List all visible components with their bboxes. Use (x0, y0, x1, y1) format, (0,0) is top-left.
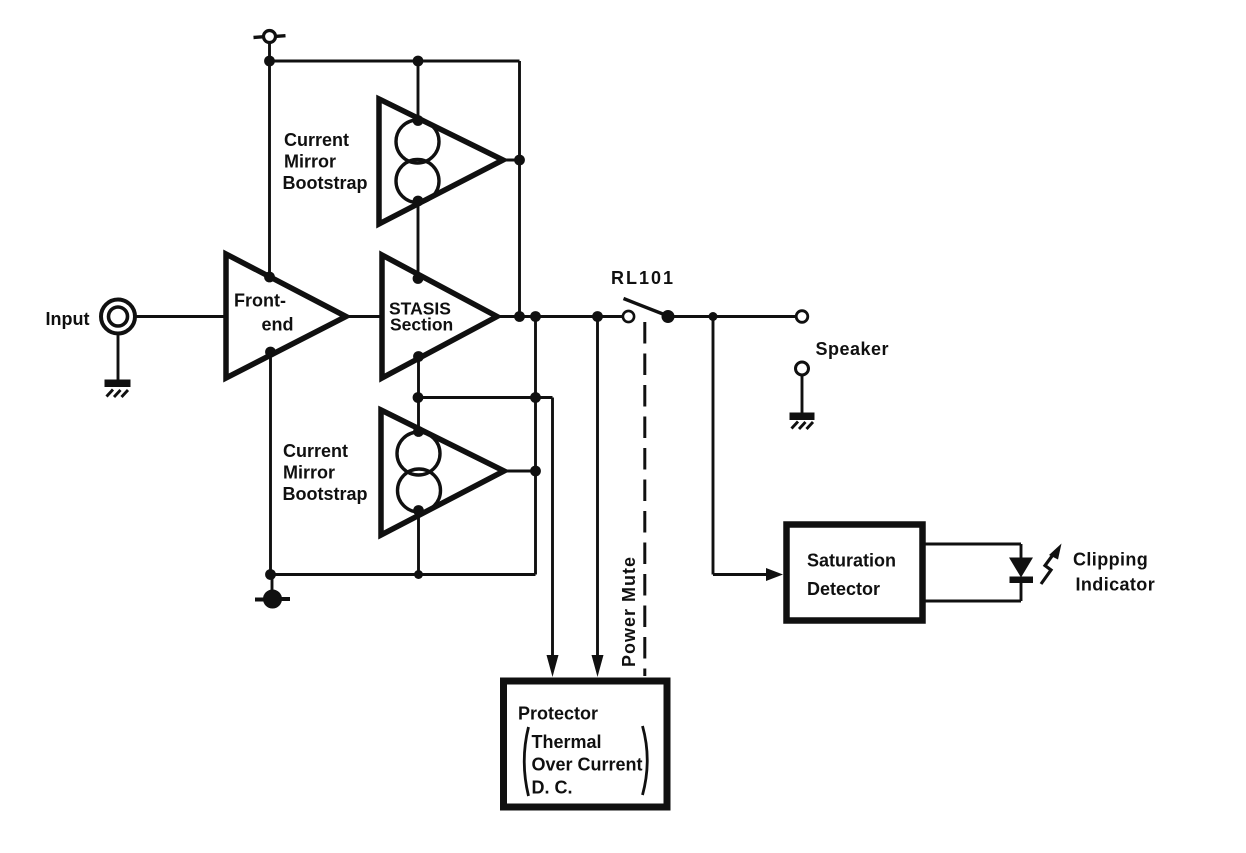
current mirror circles CMB2 (397, 432, 441, 512)
wire CMB2 apex to x535 vertical (504, 470, 536, 473)
svg-text:Over Current: Over Current (532, 755, 643, 775)
speaker terminal (ground side) (796, 362, 809, 375)
label Clipping Indicator (1073, 550, 1155, 595)
wire center vertical segment C (STASIS to CMB2) (417, 357, 420, 432)
wire relay to speaker terminal (668, 315, 797, 318)
box Saturation Detector (787, 525, 923, 621)
wire speaker terminal to ground (801, 376, 804, 414)
wire arrow to protector (left) (547, 398, 559, 678)
svg-text:Detector: Detector (807, 579, 880, 599)
speaker terminal (line end) (796, 311, 808, 323)
svg-text:end: end (262, 315, 294, 335)
svg-text:Protector: Protector (518, 704, 598, 724)
wire center vertical segment D (CMB2 to bottom rail) (417, 511, 420, 575)
amplifier U1 Front-end (226, 254, 346, 378)
wire saturation detector to LED (top) (923, 543, 1021, 546)
wire left rail upper (268, 61, 271, 277)
svg-text:Indicator: Indicator (1076, 575, 1156, 595)
wire input to ground (117, 334, 120, 380)
input terminal jack (101, 300, 135, 334)
svg-text:Current: Current (283, 441, 348, 461)
LED flash arrow (1041, 544, 1062, 585)
amplifier CMB1 (Current Mirror Bootstrap top) (379, 99, 503, 224)
svg-text:Speaker: Speaker (816, 339, 890, 359)
svg-text:Saturation: Saturation (807, 551, 896, 571)
box Protector (504, 681, 668, 807)
svg-text:Bootstrap: Bootstrap (283, 173, 368, 193)
junction dots (264, 56, 717, 580)
wire protector tap y397 (418, 396, 553, 399)
ground (speaker) (790, 413, 815, 430)
svg-text:Input: Input (46, 309, 90, 329)
positive supply terminal (254, 31, 286, 43)
wire front-end to STASIS (346, 315, 382, 318)
svg-text:Section: Section (390, 315, 453, 335)
wire right rail (518, 61, 521, 317)
label Front-end (234, 291, 294, 335)
label STASIS Section (389, 299, 453, 335)
relay RL101 contact (623, 299, 675, 324)
wire left rail lower (269, 352, 272, 575)
negative supply terminal (255, 575, 290, 608)
wire saturation detector tap (713, 317, 783, 582)
power mute dashed line (643, 322, 646, 676)
amplifier CMB2 (Current Mirror Bootstrap bottom) (381, 410, 504, 535)
parenthesis left (524, 727, 528, 796)
wire output line STASIS to relay (497, 315, 623, 318)
svg-text:Bootstrap: Bootstrap (283, 484, 368, 504)
svg-text:Mirror: Mirror (284, 152, 336, 172)
label Current Mirror Bootstrap (top) (283, 130, 368, 193)
wire bottom rail (271, 573, 536, 576)
label Protector (Thermal Over Current D.C.) (518, 704, 643, 798)
parenthesis right (643, 726, 648, 795)
svg-text:Current: Current (284, 130, 349, 150)
svg-text:Front-: Front- (234, 291, 286, 311)
wire top rail (270, 60, 520, 63)
wire supply to top rail (268, 43, 271, 62)
current mirror circles CMB1 (396, 120, 439, 203)
wire arrow to protector (right) (592, 317, 604, 678)
svg-text:Mirror: Mirror (283, 463, 335, 483)
wire input to front-end (135, 315, 226, 318)
wire saturation detector to LED (bottom) (923, 600, 1021, 603)
wire CMB1 apex to right rail (503, 159, 520, 162)
LED clipping indicator diode (1009, 544, 1033, 601)
wire center vertical segment B (CMB1 to STASIS) (417, 201, 420, 279)
svg-text:Clipping: Clipping (1073, 550, 1148, 570)
label Current Mirror Bootstrap (bottom) (283, 441, 368, 504)
svg-text:Power Mute: Power Mute (619, 556, 639, 667)
ground (input) (105, 380, 131, 398)
wire center vertical segment A (top rail to CMB1) (417, 61, 420, 121)
svg-text:D. C.: D. C. (532, 778, 573, 798)
svg-text:RL101: RL101 (611, 268, 675, 288)
svg-text:Thermal: Thermal (532, 732, 602, 752)
wire x535 vertical (output node to bottom rail) (534, 317, 537, 575)
amplifier U2 STASIS Section (382, 255, 497, 378)
label Saturation Detector (807, 551, 896, 600)
